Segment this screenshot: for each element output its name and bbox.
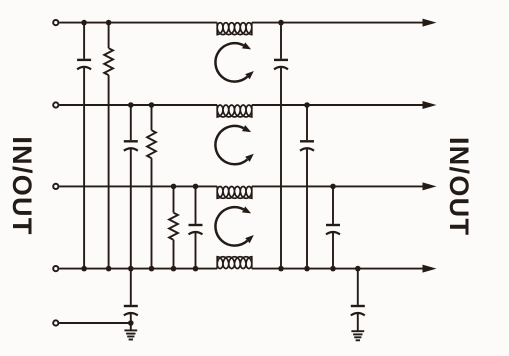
- wire bus 2 right segment: [252, 104, 424, 106]
- wire R2 bottom lead: [151, 158, 153, 268]
- node: junction bus1/R1: [106, 20, 112, 26]
- wire bus 2 left segment: [59, 104, 217, 106]
- ground GND1: [124, 329, 137, 331]
- wire bus 4 left segment: [59, 268, 217, 270]
- terminal T3 (open circle): [53, 184, 58, 189]
- capacitor C2: [124, 140, 138, 142]
- wire C4 top lead: [280, 23, 282, 59]
- ground GND2: [351, 330, 364, 332]
- node: junction bus4/C6: [330, 266, 336, 272]
- node: junction bus2/C2: [128, 102, 134, 108]
- wire R3 top lead: [173, 186, 175, 212]
- wire C7 bottom lead: [357, 313, 359, 331]
- resistor R1: [104, 48, 113, 75]
- wire C6 bottom lead: [332, 232, 334, 269]
- inductor L1: [217, 23, 252, 35]
- node: junction bus3/C3: [193, 184, 199, 190]
- capacitor C1: [77, 59, 91, 61]
- arrowhead bus 1: [423, 19, 437, 27]
- wire C5 top lead: [306, 105, 308, 140]
- node: junction bus4/C3: [193, 266, 199, 272]
- node: junction bus4/C1: [81, 266, 87, 272]
- inductor L4: [217, 257, 252, 269]
- node: junction bus3/R3: [171, 184, 177, 190]
- coupling circulation arrow 1 (between L1 and L2): [215, 43, 247, 81]
- capacitor C5: [300, 140, 314, 142]
- node: junction bus4/C5: [304, 266, 310, 272]
- svg-text:IN/OUT: IN/OUT: [444, 137, 474, 236]
- node: junction bus4/R3: [171, 266, 177, 272]
- wire C8 top lead (below bus4): [130, 269, 132, 305]
- node: junction bus3/C6: [330, 184, 336, 190]
- arrowhead bus 4: [423, 265, 437, 273]
- node: junction bus2/R2: [149, 102, 155, 108]
- resistor R3: [169, 213, 178, 240]
- inductor L3: [217, 186, 252, 198]
- resistor R2: [147, 130, 156, 158]
- node: junction bus1/C1: [81, 20, 87, 26]
- arrowhead bus 2: [423, 101, 437, 109]
- wire R1 top lead: [108, 23, 110, 49]
- wire C3 bottom lead: [195, 232, 197, 269]
- wire C8 bottom lead: [130, 313, 132, 330]
- terminal T5 (open circle, bottom left): [53, 320, 58, 325]
- node: junction bus1/C4: [278, 20, 284, 26]
- wire C2 top lead: [130, 105, 132, 140]
- wire C7 top lead: [357, 269, 359, 305]
- wire R2 top lead: [151, 105, 153, 130]
- wire bus 3 right segment: [252, 185, 424, 187]
- node: junction bus4/C4: [278, 266, 284, 272]
- terminal T1 (open circle): [53, 20, 58, 25]
- capacitor C8: [124, 305, 138, 307]
- wire bus 4 right segment: [252, 268, 424, 270]
- coupling circulation arrow 3 (between L3 and L4): [215, 207, 247, 245]
- wire C4 bottom lead: [280, 67, 282, 269]
- svg-text:IN/OUT: IN/OUT: [7, 136, 37, 235]
- node: junction bus5/C8/ground: [128, 320, 134, 326]
- wire R1 bottom lead: [108, 75, 110, 269]
- wire bus 5 (ground stub line): [59, 322, 131, 324]
- coupling circulation arrow 2 (between L2 and L3): [215, 126, 247, 164]
- wire bus 3 left segment: [59, 185, 217, 187]
- wire C6 top lead: [332, 186, 334, 224]
- wire C1 top lead: [83, 23, 85, 59]
- terminal T4 (open circle): [53, 266, 58, 271]
- inductor L2: [217, 105, 252, 117]
- wire bus 1 right segment: [252, 22, 424, 24]
- wire bus 1 left segment: [59, 22, 217, 24]
- capacitor C3: [189, 224, 203, 226]
- wire C5 bottom lead: [306, 148, 308, 268]
- arrowhead bus 3: [423, 182, 437, 190]
- wire R3 bottom lead: [173, 240, 175, 269]
- node: junction bus4/R2: [149, 266, 155, 272]
- node: junction bus4/C7: [355, 266, 361, 272]
- capacitor C4: [274, 59, 288, 61]
- capacitor C6: [326, 224, 340, 226]
- node: junction bus4/C2: [128, 266, 134, 272]
- node: junction bus4/R1: [106, 266, 112, 272]
- wire C3 top lead: [195, 186, 197, 224]
- capacitor C7: [351, 305, 365, 307]
- terminal T2 (open circle): [53, 102, 58, 107]
- wire C1 bottom lead: [83, 67, 85, 269]
- wire C2 bottom lead: [130, 148, 132, 268]
- node: junction bus2/C5: [304, 102, 310, 108]
